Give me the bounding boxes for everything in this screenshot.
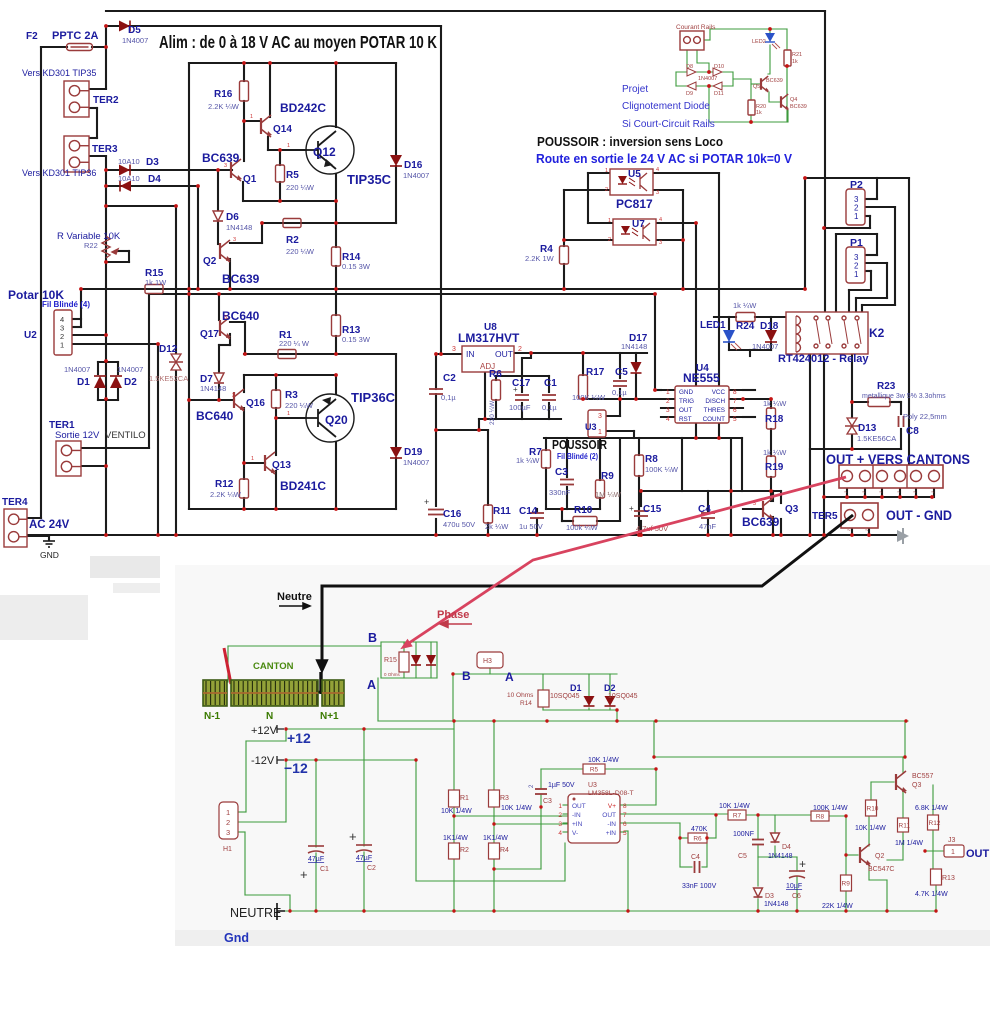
svg-text:10K 1/4W: 10K 1/4W (719, 803, 750, 810)
svg-text:N+1: N+1 (320, 711, 339, 722)
svg-text:6: 6 (733, 407, 737, 414)
svg-text:D13: D13 (858, 423, 877, 434)
svg-text:Fil Blindé (2): Fil Blindé (2) (557, 452, 598, 461)
svg-text:LM317HVT: LM317HVT (458, 331, 520, 345)
svg-text:D18: D18 (760, 321, 779, 332)
svg-text:OUT: OUT (572, 803, 586, 810)
svg-text:C3: C3 (555, 467, 568, 478)
svg-text:4: 4 (656, 167, 659, 173)
svg-text:100K ¼W: 100K ¼W (645, 465, 679, 474)
svg-text:6: 6 (623, 821, 627, 828)
svg-text:R10: R10 (574, 505, 593, 516)
svg-text:VCC: VCC (712, 389, 726, 396)
svg-text:3: 3 (659, 240, 662, 246)
svg-text:C3: C3 (543, 798, 552, 805)
svg-text:VENTILO: VENTILO (105, 430, 146, 441)
svg-text:3: 3 (233, 237, 236, 243)
svg-text:100µF: 100µF (509, 403, 531, 412)
svg-text:R9: R9 (842, 881, 851, 888)
svg-text:N-1: N-1 (204, 711, 221, 722)
svg-text:BD241C: BD241C (280, 479, 326, 493)
svg-text:10K 1/4W: 10K 1/4W (855, 825, 886, 832)
svg-text:2: 2 (518, 346, 522, 353)
svg-text:1N4148: 1N4148 (200, 384, 226, 393)
svg-text:3: 3 (232, 393, 235, 399)
svg-text:C1: C1 (320, 866, 329, 873)
svg-text:220 ¼ W: 220 ¼ W (279, 339, 310, 348)
svg-text:1: 1 (251, 456, 254, 462)
svg-text:~: ~ (862, 490, 866, 496)
svg-text:OUT - GND: OUT - GND (886, 508, 952, 523)
svg-text:R12: R12 (215, 479, 234, 490)
svg-text:D19: D19 (404, 447, 423, 458)
svg-text:1: 1 (608, 218, 611, 224)
svg-text:10A10: 10A10 (118, 174, 140, 183)
svg-text:~: ~ (879, 490, 883, 496)
svg-text:P2: P2 (850, 179, 863, 191)
svg-text:10SQ045: 10SQ045 (608, 693, 638, 700)
svg-text:4: 4 (558, 830, 562, 837)
svg-text:4: 4 (659, 217, 662, 223)
svg-text:100NF: 100NF (733, 831, 754, 838)
svg-text:1k 1W: 1k 1W (145, 278, 167, 287)
svg-text:Q20: Q20 (325, 413, 348, 427)
svg-text:C15: C15 (643, 504, 662, 515)
svg-text:Q4: Q4 (790, 97, 797, 103)
svg-text:V+: V+ (608, 803, 616, 810)
svg-text:D4: D4 (148, 174, 161, 185)
svg-text:Fil Blindé (4): Fil Blindé (4) (42, 300, 90, 309)
svg-text:TIP36C: TIP36C (351, 390, 396, 405)
svg-text:1: 1 (287, 143, 290, 149)
svg-text:7: 7 (733, 398, 737, 405)
svg-text:R24: R24 (736, 321, 755, 332)
svg-text:IN: IN (466, 349, 475, 359)
svg-text:R22: R22 (84, 241, 98, 250)
svg-text:C8: C8 (906, 426, 919, 437)
svg-text:R2: R2 (460, 847, 469, 854)
svg-text:Q12: Q12 (313, 145, 336, 159)
svg-text:220 ¼W: 220 ¼W (286, 247, 315, 256)
svg-text:R4: R4 (500, 847, 509, 854)
svg-text:BC639: BC639 (766, 78, 783, 84)
svg-text:Phase: Phase (437, 609, 469, 621)
svg-text:A: A (367, 678, 376, 692)
svg-text:U7: U7 (632, 219, 645, 230)
svg-text:POUSSOIR : inversion sens Loco: POUSSOIR : inversion sens Loco (537, 134, 723, 149)
svg-text:3: 3 (666, 407, 670, 414)
svg-text:D1: D1 (77, 377, 90, 388)
svg-text:1: 1 (854, 270, 859, 279)
svg-text:Q3: Q3 (785, 504, 799, 515)
svg-text:2.2K 1W: 2.2K 1W (525, 254, 555, 263)
svg-text:R17: R17 (586, 367, 605, 378)
svg-text:U3: U3 (588, 782, 597, 789)
svg-text:BC640: BC640 (196, 409, 234, 423)
svg-text:R3: R3 (500, 795, 509, 802)
svg-text:C2: C2 (367, 865, 376, 872)
svg-text:THRES: THRES (704, 407, 725, 414)
svg-text:D9: D9 (686, 91, 693, 97)
svg-text:2.2K ¼W: 2.2K ¼W (210, 490, 242, 499)
svg-text:0.15 3W: 0.15 3W (342, 335, 371, 344)
svg-text:R10: R10 (867, 806, 879, 813)
svg-text:Projet: Projet (622, 84, 648, 95)
svg-text:220 ¼W: 220 ¼W (286, 183, 315, 192)
svg-text:1N4148: 1N4148 (764, 901, 789, 908)
svg-text:47µF: 47µF (356, 855, 372, 862)
svg-text:R11: R11 (899, 823, 911, 830)
svg-text:2: 2 (666, 398, 670, 405)
svg-text:1: 1 (951, 849, 955, 856)
svg-text:8: 8 (623, 803, 627, 810)
svg-text:3: 3 (224, 315, 227, 321)
svg-text:P1: P1 (850, 237, 863, 249)
svg-text:BC639: BC639 (202, 151, 240, 165)
svg-text:3: 3 (224, 163, 227, 169)
svg-text:COUNT: COUNT (703, 416, 726, 423)
svg-text:PC817: PC817 (616, 197, 653, 211)
svg-text:1: 1 (287, 411, 290, 417)
svg-text:BD242C: BD242C (280, 101, 326, 115)
svg-text:LED1: LED1 (700, 320, 726, 331)
svg-text:+IN: +IN (606, 830, 617, 837)
svg-text:3: 3 (598, 413, 602, 420)
svg-text:2k ¼W: 2k ¼W (485, 522, 509, 531)
svg-text:D3: D3 (146, 157, 159, 168)
svg-text:4: 4 (666, 416, 670, 423)
svg-text:1k ¼W: 1k ¼W (733, 301, 757, 310)
svg-text:1.5KE56CA: 1.5KE56CA (857, 434, 896, 443)
svg-text:Vers KD301 TIP35: Vers KD301 TIP35 (22, 68, 96, 78)
svg-text:BC557: BC557 (912, 773, 934, 780)
svg-text:1: 1 (666, 389, 670, 396)
svg-text:NEUTRE: NEUTRE (230, 906, 281, 920)
svg-text:1M ¼W: 1M ¼W (595, 490, 622, 499)
svg-text:metallique 3w 5% 3.3ohms: metallique 3w 5% 3.3ohms (862, 393, 946, 400)
svg-text:AC 24V: AC 24V (29, 519, 70, 531)
svg-text:R11: R11 (493, 506, 511, 517)
svg-text:1N4148: 1N4148 (768, 853, 793, 860)
svg-text:1k ¼W: 1k ¼W (516, 456, 540, 465)
svg-text:D16: D16 (404, 160, 423, 171)
svg-text:Poly 22,5mm: Poly 22,5mm (903, 412, 947, 421)
svg-text:5: 5 (733, 416, 737, 423)
svg-text:RST: RST (679, 416, 692, 423)
svg-text:1k: 1k (756, 110, 762, 116)
svg-text:47µF: 47µF (308, 856, 324, 863)
svg-text:C4: C4 (691, 854, 700, 861)
svg-text:1: 1 (605, 168, 608, 174)
svg-text:TER3: TER3 (92, 144, 118, 155)
svg-text:0 Ohms: 0 Ohms (384, 672, 401, 677)
svg-text:D4: D4 (782, 844, 791, 851)
svg-text:100K ¼W: 100K ¼W (572, 393, 606, 402)
svg-text:R23: R23 (877, 381, 896, 392)
svg-text:BC639: BC639 (222, 272, 260, 286)
svg-text:Q14: Q14 (273, 124, 292, 135)
svg-text:1.5KE52CA: 1.5KE52CA (149, 374, 188, 383)
svg-text:1: 1 (598, 429, 602, 436)
svg-text:R9: R9 (601, 471, 614, 482)
svg-text:0,1µ: 0,1µ (441, 393, 456, 402)
svg-text:10µF: 10µF (786, 883, 802, 890)
svg-text:1N4007: 1N4007 (698, 76, 717, 82)
svg-text:+: + (629, 504, 634, 513)
svg-text:Neutre: Neutre (277, 591, 312, 603)
svg-text:R1: R1 (460, 795, 469, 802)
svg-text:R5: R5 (590, 767, 599, 774)
svg-text:Q3: Q3 (912, 782, 921, 789)
svg-text:GND: GND (40, 550, 59, 560)
svg-text:R2: R2 (286, 235, 299, 246)
svg-text:1K1/4W: 1K1/4W (483, 835, 508, 842)
svg-text:470K: 470K (691, 826, 708, 833)
svg-text:Alim : de 0 à 18 V AC au moyen: Alim : de 0 à 18 V AC au moyen POTAR 10 … (159, 32, 437, 52)
svg-text:~: ~ (865, 528, 869, 534)
svg-text:B: B (462, 669, 471, 683)
svg-text:R8: R8 (816, 814, 825, 821)
svg-text:C5: C5 (615, 367, 628, 378)
svg-text:Q16: Q16 (246, 398, 265, 409)
svg-text:TIP35C: TIP35C (347, 172, 392, 187)
svg-text:47nF: 47nF (699, 522, 717, 531)
svg-text:Clignotement Diode: Clignotement Diode (622, 101, 710, 112)
svg-text:TER2: TER2 (93, 95, 119, 106)
svg-text:TER5: TER5 (812, 511, 838, 522)
svg-text:1N4007: 1N4007 (117, 365, 143, 374)
svg-text:POUSSOIR: POUSSOIR (552, 438, 607, 452)
svg-text:-12V: -12V (251, 755, 275, 767)
svg-text:K2: K2 (869, 326, 885, 340)
svg-text:+12: +12 (287, 730, 311, 746)
svg-text:1k: 1k (792, 59, 798, 65)
svg-text:OUT: OUT (602, 812, 616, 819)
svg-text:1k ¼W: 1k ¼W (763, 399, 787, 408)
svg-text:1M 1/4W: 1M 1/4W (895, 840, 923, 847)
svg-text:10K 1/4W: 10K 1/4W (501, 805, 532, 812)
svg-text:0.15 3W: 0.15 3W (342, 262, 371, 271)
svg-text:100k ¼W: 100k ¼W (566, 523, 599, 532)
svg-text:100K 1/4W: 100K 1/4W (813, 805, 848, 812)
svg-text:C17: C17 (512, 378, 531, 389)
svg-text:2: 2 (558, 812, 562, 819)
svg-text:NE555: NE555 (683, 371, 720, 385)
svg-text:U5: U5 (628, 169, 641, 180)
svg-text:Q13: Q13 (272, 460, 291, 471)
svg-text:R18: R18 (765, 414, 784, 425)
svg-text:-IN: -IN (572, 812, 581, 819)
svg-text:R8: R8 (645, 454, 658, 465)
svg-text:+: + (349, 829, 357, 844)
svg-text:2: 2 (226, 818, 230, 827)
svg-text:220 ¼W: 220 ¼W (285, 401, 314, 410)
svg-text:6.8K 1/4W: 6.8K 1/4W (915, 805, 948, 812)
svg-text:C1: C1 (544, 378, 557, 389)
svg-text:1N4148: 1N4148 (226, 223, 252, 232)
svg-text:+: + (799, 857, 806, 871)
svg-text:C5: C5 (738, 853, 747, 860)
svg-text:3: 3 (226, 828, 230, 837)
svg-text:C14: C14 (519, 506, 538, 517)
svg-text:R19: R19 (765, 462, 784, 473)
svg-text:Q2: Q2 (875, 853, 884, 860)
svg-text:D5: D5 (128, 25, 141, 36)
svg-text:Route en sortie le 24 V AC si: Route en sortie le 24 V AC si POTAR 10k=… (536, 151, 792, 166)
svg-text:~: ~ (931, 490, 935, 496)
svg-text:F2: F2 (26, 31, 38, 42)
svg-text:R15: R15 (384, 657, 397, 664)
svg-text:8: 8 (733, 389, 737, 396)
svg-text:D2: D2 (124, 377, 137, 388)
svg-text:Q1: Q1 (243, 174, 257, 185)
svg-text:R13: R13 (942, 875, 955, 882)
svg-text:R14: R14 (520, 700, 532, 707)
svg-text:RT424012 - Relay: RT424012 - Relay (778, 353, 869, 365)
svg-text:10 Ohms: 10 Ohms (507, 692, 534, 699)
svg-text:Q2: Q2 (203, 256, 217, 267)
svg-text:D6: D6 (226, 212, 239, 223)
svg-text:A: A (505, 670, 514, 684)
svg-text:R5: R5 (286, 170, 299, 181)
svg-text:D2: D2 (604, 683, 616, 693)
svg-text:1N4007: 1N4007 (64, 365, 90, 374)
svg-text:GND: GND (679, 389, 693, 396)
svg-text:1: 1 (250, 114, 253, 120)
svg-text:22K 1/4W: 22K 1/4W (822, 903, 853, 910)
svg-text:DISCH: DISCH (705, 398, 725, 405)
svg-text:470u 50V: 470u 50V (443, 520, 475, 529)
svg-text:−12: −12 (284, 760, 308, 776)
svg-text:1: 1 (558, 803, 562, 810)
svg-text:33nF 100V: 33nF 100V (682, 883, 717, 890)
svg-text:330nF: 330nF (549, 488, 571, 497)
svg-text:OUT: OUT (679, 407, 692, 414)
svg-text:OUT + VERS CANTONS: OUT + VERS CANTONS (826, 452, 970, 467)
svg-text:B: B (368, 631, 377, 645)
svg-text:~: ~ (913, 490, 917, 496)
svg-text:R16: R16 (214, 89, 233, 100)
svg-text:~: ~ (847, 528, 851, 534)
svg-text:R21: R21 (792, 52, 802, 58)
svg-text:H1: H1 (223, 846, 232, 853)
svg-text:BC639: BC639 (742, 515, 780, 529)
svg-text:R3: R3 (285, 390, 298, 401)
svg-text:0,1µ: 0,1µ (612, 388, 627, 397)
svg-text:3: 3 (558, 821, 562, 828)
svg-text:C6: C6 (792, 893, 801, 900)
svg-text:5: 5 (623, 830, 627, 837)
svg-text:U2: U2 (24, 330, 37, 341)
svg-text:R6: R6 (489, 369, 502, 380)
svg-text:BC547C: BC547C (868, 866, 894, 873)
svg-text:1k ¼W: 1k ¼W (763, 448, 787, 457)
svg-text:1µF 50V: 1µF 50V (548, 782, 575, 789)
svg-text:10A10: 10A10 (118, 157, 140, 166)
svg-text:Si Court-Circuit Rails: Si Court-Circuit Rails (622, 119, 715, 130)
svg-text:J3: J3 (948, 837, 956, 844)
svg-text:1: 1 (226, 808, 230, 817)
svg-text:2: 2 (608, 237, 611, 243)
svg-text:D8: D8 (686, 64, 693, 70)
svg-text:+12V: +12V (251, 725, 278, 737)
svg-text:Vers KD301 TIP36: Vers KD301 TIP36 (22, 168, 96, 178)
svg-text:10K 1/4W: 10K 1/4W (588, 757, 619, 764)
svg-text:1: 1 (854, 212, 859, 221)
svg-text:2: 2 (605, 187, 608, 193)
svg-text:D12: D12 (159, 344, 178, 355)
svg-text:LED2: LED2 (752, 39, 766, 45)
svg-text:H3: H3 (483, 658, 492, 665)
svg-text:10SQ045: 10SQ045 (550, 693, 580, 700)
svg-text:PPTC 2A: PPTC 2A (52, 30, 99, 42)
svg-text:TER4: TER4 (2, 497, 28, 508)
svg-text:Gnd: Gnd (224, 931, 249, 945)
svg-text:1: 1 (60, 341, 64, 350)
svg-text:~: ~ (897, 490, 901, 496)
svg-text:1K1/4W: 1K1/4W (443, 835, 468, 842)
svg-text:+: + (424, 497, 429, 507)
svg-text:220 ¼W: 220 ¼W (489, 400, 496, 425)
svg-text:R12: R12 (929, 820, 941, 827)
svg-text:Q17: Q17 (200, 329, 219, 340)
svg-text:+: + (300, 867, 308, 882)
svg-text:D3: D3 (765, 893, 774, 900)
svg-text:3: 3 (452, 346, 456, 353)
svg-text:BC640: BC640 (222, 309, 260, 323)
svg-text:U3: U3 (585, 422, 597, 432)
svg-text:1u 50V: 1u 50V (519, 522, 543, 531)
svg-text:-IN: -IN (607, 821, 616, 828)
svg-text:D11: D11 (714, 91, 724, 97)
svg-text:4.7K 1/4W: 4.7K 1/4W (915, 891, 948, 898)
svg-text:N: N (266, 711, 273, 722)
svg-text:10K 1/4W: 10K 1/4W (441, 808, 472, 815)
svg-text:OUT: OUT (966, 848, 990, 860)
svg-text:3: 3 (656, 190, 659, 196)
svg-text:Q5: Q5 (753, 84, 760, 90)
svg-text:2.2K ¼W: 2.2K ¼W (208, 102, 240, 111)
svg-text:7: 7 (623, 812, 627, 819)
svg-text:C16: C16 (443, 509, 462, 520)
svg-text:TRIG: TRIG (679, 398, 694, 405)
svg-text:1N4148: 1N4148 (621, 342, 647, 351)
svg-text:R6: R6 (693, 836, 702, 843)
svg-text:C2: C2 (443, 373, 456, 384)
svg-text:D10: D10 (714, 64, 724, 70)
svg-text:Sortie 12V: Sortie 12V (55, 430, 100, 441)
svg-text:~: ~ (844, 490, 848, 496)
svg-text:CANTON: CANTON (253, 661, 294, 672)
svg-text:LM358L-D08-T: LM358L-D08-T (588, 790, 634, 797)
svg-text:D1: D1 (570, 683, 582, 693)
svg-text:Courant Rails: Courant Rails (676, 24, 716, 31)
svg-text:OUT: OUT (495, 349, 513, 359)
svg-text:0,1µ: 0,1µ (542, 403, 557, 412)
svg-text:1N4007: 1N4007 (403, 458, 429, 467)
svg-text:+IN: +IN (572, 821, 583, 828)
svg-text:V-: V- (572, 830, 578, 837)
svg-text:1N4007: 1N4007 (122, 36, 148, 45)
svg-text:BC639: BC639 (790, 104, 807, 110)
svg-text:1N4007: 1N4007 (752, 342, 778, 351)
svg-text:R7: R7 (733, 813, 742, 820)
svg-text:1N4007: 1N4007 (403, 171, 429, 180)
